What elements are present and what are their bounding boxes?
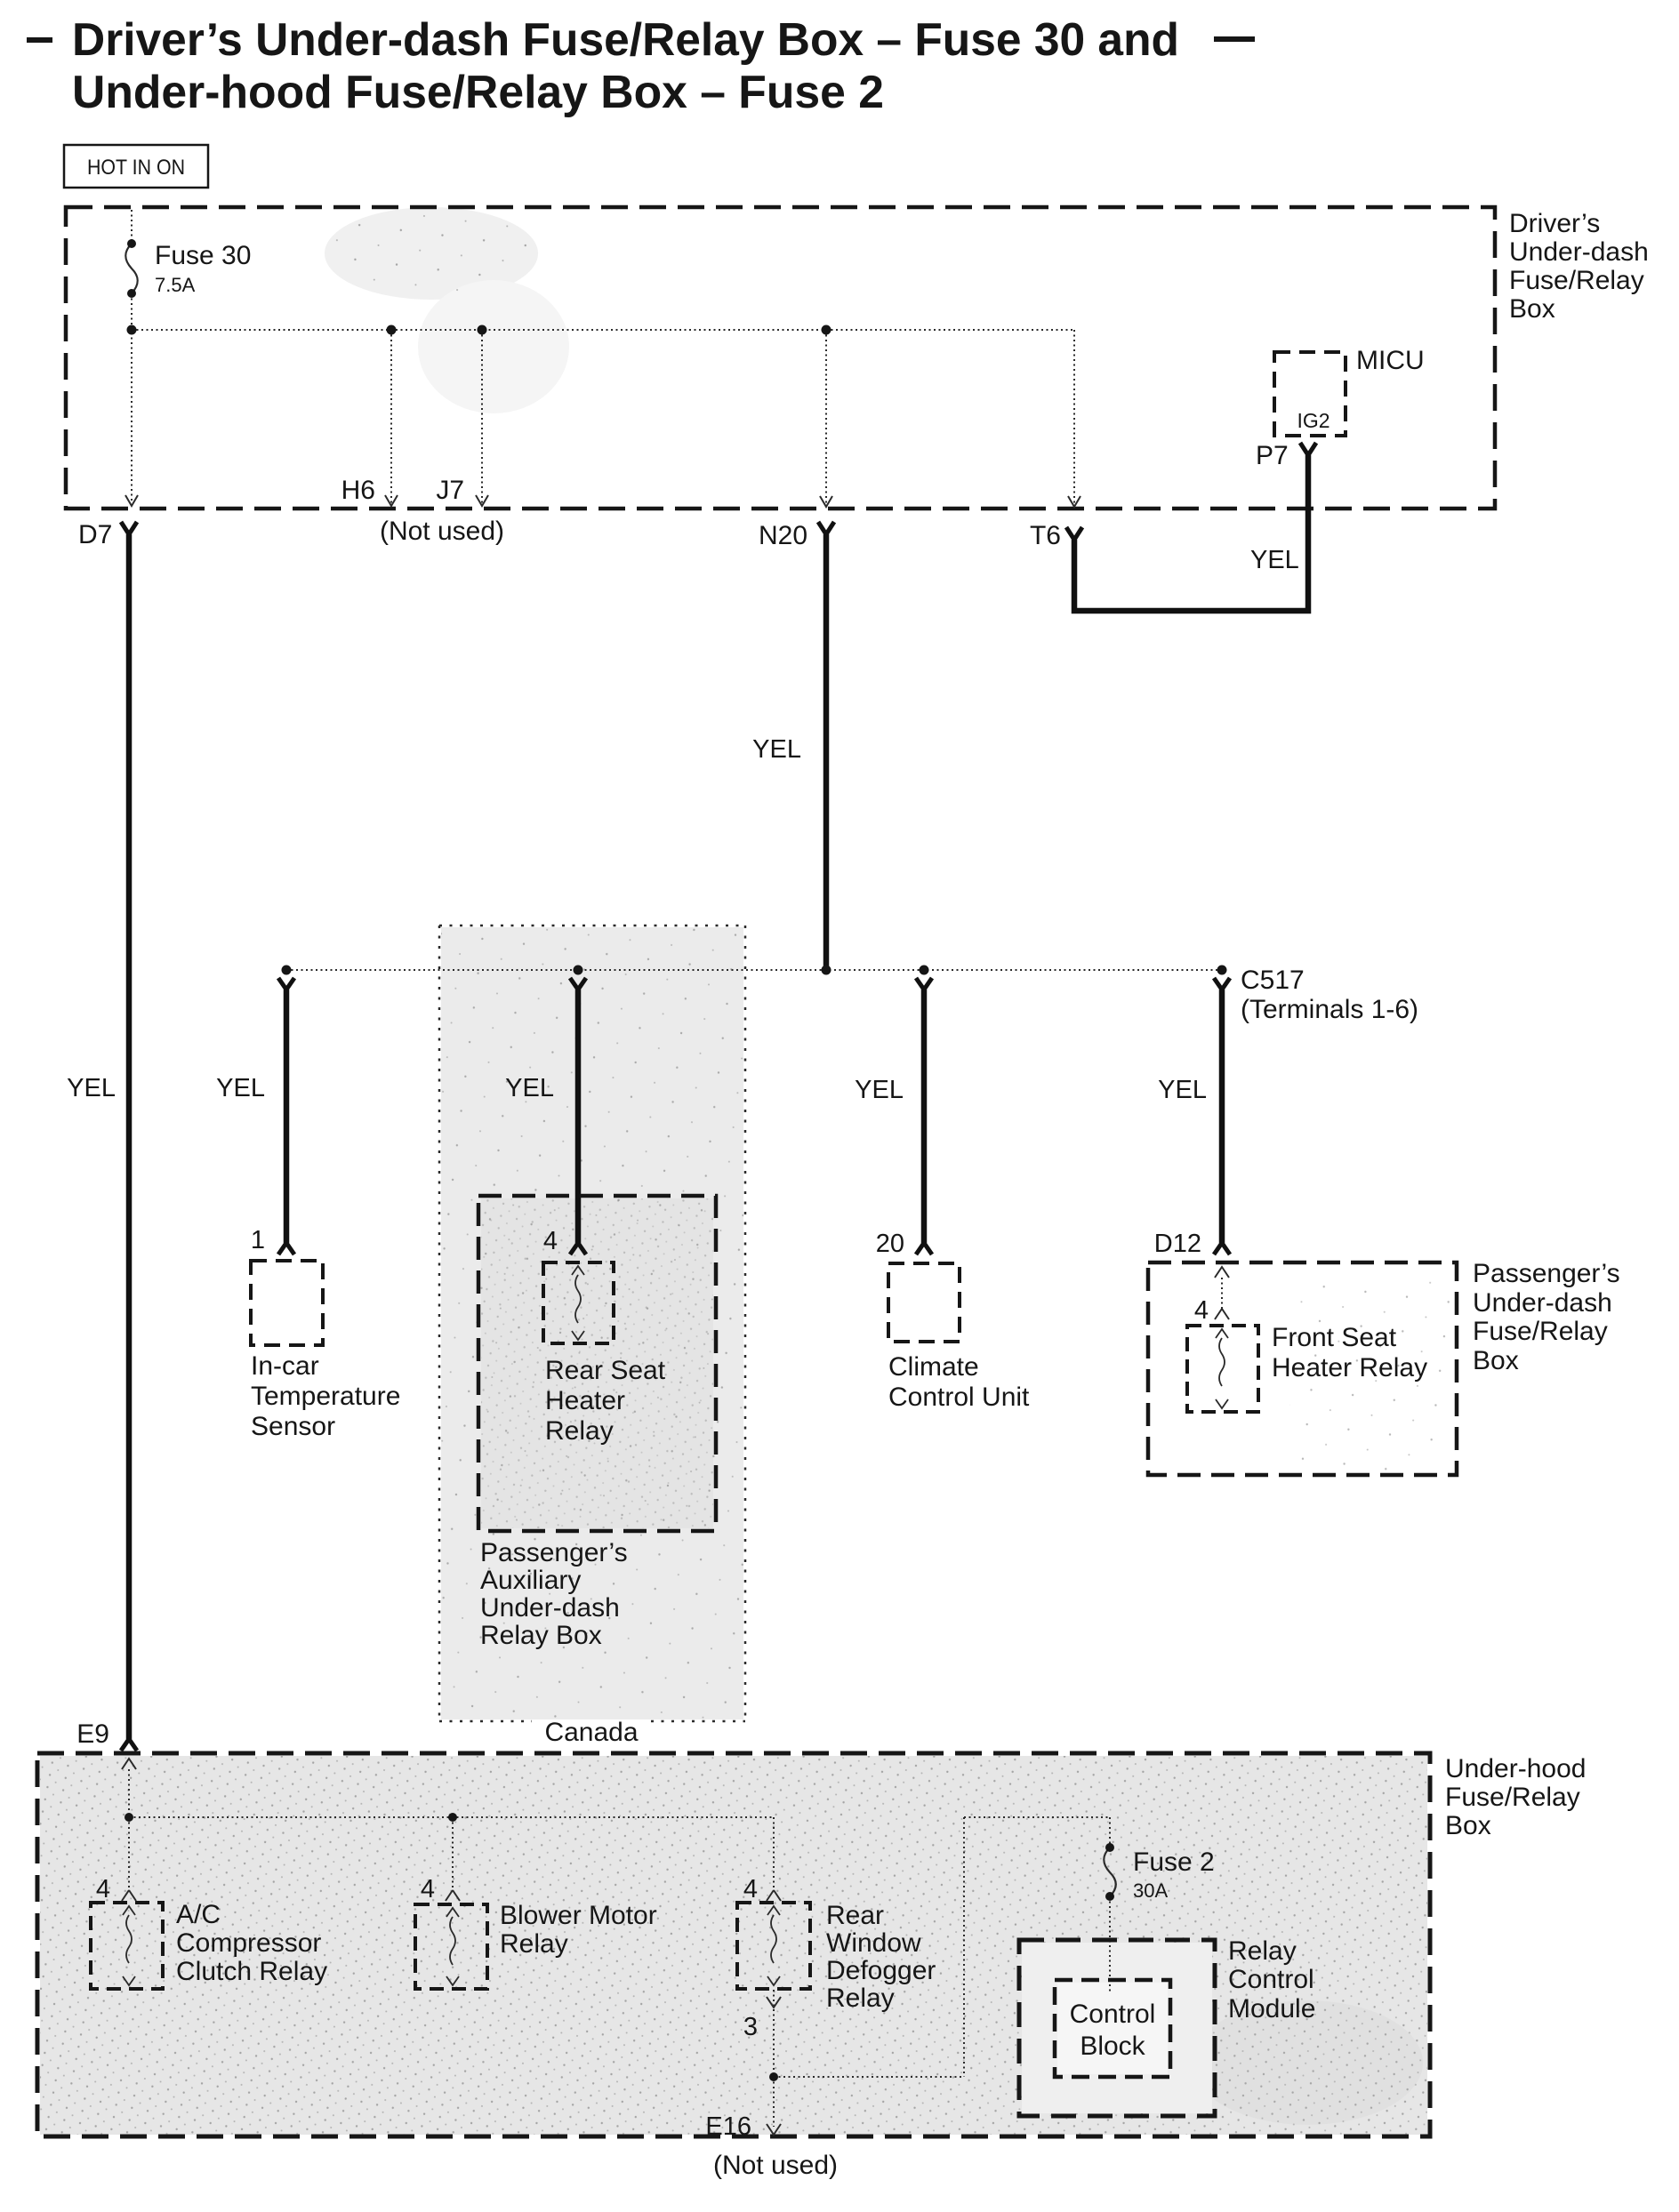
svg-text:Box: Box: [1509, 294, 1555, 324]
svg-text:N20: N20: [759, 521, 807, 550]
svg-text:Module: Module: [1228, 1994, 1315, 2024]
svg-text:(Terminals 1-6): (Terminals 1-6): [1241, 995, 1418, 1024]
svg-text:(Not used): (Not used): [713, 2151, 838, 2180]
svg-text:4: 4: [421, 1875, 435, 1903]
svg-text:IG2: IG2: [1297, 409, 1330, 432]
svg-text:Under-dash: Under-dash: [480, 1593, 620, 1623]
svg-text:P7: P7: [1256, 441, 1289, 470]
svg-text:4: 4: [543, 1227, 558, 1255]
svg-text:MICU: MICU: [1356, 346, 1425, 375]
svg-text:J7: J7: [436, 476, 464, 505]
svg-text:Fuse/Relay: Fuse/Relay: [1509, 266, 1644, 295]
svg-text:YEL: YEL: [855, 1076, 904, 1104]
svg-text:Fuse 30: Fuse 30: [155, 241, 251, 270]
svg-text:Under-hood Fuse/Relay Box – Fu: Under-hood Fuse/Relay Box – Fuse 2: [72, 67, 884, 118]
svg-text:Control: Control: [1228, 1965, 1314, 1994]
svg-text:7.5A: 7.5A: [155, 274, 196, 296]
svg-text:20: 20: [876, 1230, 904, 1258]
svg-text:Rear Seat: Rear Seat: [545, 1356, 666, 1385]
svg-text:H6: H6: [341, 476, 375, 505]
svg-text:Box: Box: [1473, 1346, 1519, 1375]
svg-text:Blower Motor: Blower Motor: [500, 1901, 657, 1930]
svg-text:4: 4: [1194, 1296, 1209, 1325]
svg-text:Relay: Relay: [545, 1416, 614, 1446]
svg-text:Relay Box: Relay Box: [480, 1621, 602, 1650]
svg-text:Fuse/Relay: Fuse/Relay: [1445, 1783, 1580, 1812]
svg-text:Driver’s: Driver’s: [1509, 209, 1600, 238]
svg-text:Heater: Heater: [545, 1386, 625, 1415]
svg-text:YEL: YEL: [67, 1074, 116, 1102]
svg-text:YEL: YEL: [216, 1074, 265, 1102]
svg-text:Under-dash: Under-dash: [1509, 237, 1649, 267]
svg-text:1: 1: [251, 1226, 265, 1254]
svg-text:Temperature: Temperature: [251, 1382, 400, 1411]
svg-text:YEL: YEL: [505, 1074, 554, 1102]
svg-text:Front Seat: Front Seat: [1272, 1323, 1397, 1352]
svg-text:Passenger’s: Passenger’s: [1473, 1259, 1620, 1288]
svg-text:Box: Box: [1445, 1811, 1491, 1840]
svg-text:Climate: Climate: [888, 1352, 979, 1382]
svg-text:Control: Control: [1070, 2000, 1156, 2029]
svg-text:Under-hood: Under-hood: [1445, 1754, 1586, 1783]
svg-text:Block: Block: [1080, 2032, 1145, 2061]
svg-text:T6: T6: [1030, 521, 1061, 550]
svg-text:YEL: YEL: [1250, 546, 1299, 574]
svg-text:Fuse 2: Fuse 2: [1133, 1847, 1215, 1877]
svg-text:4: 4: [743, 1875, 758, 1903]
svg-text:A/C: A/C: [176, 1900, 221, 1929]
svg-text:4: 4: [96, 1875, 110, 1903]
svg-text:Heater Relay: Heater Relay: [1272, 1353, 1427, 1382]
svg-text:YEL: YEL: [1158, 1076, 1207, 1104]
svg-text:Passenger’s: Passenger’s: [480, 1538, 628, 1567]
svg-text:Control Unit: Control Unit: [888, 1382, 1030, 1412]
svg-text:Defogger: Defogger: [826, 1956, 936, 1985]
svg-text:YEL: YEL: [752, 735, 801, 764]
svg-text:(Not used): (Not used): [380, 517, 504, 546]
svg-text:30A: 30A: [1133, 1879, 1168, 1902]
svg-text:E16: E16: [705, 2112, 751, 2141]
svg-text:D7: D7: [78, 520, 112, 549]
svg-text:Relay: Relay: [826, 1984, 895, 2013]
svg-text:C517: C517: [1241, 966, 1305, 995]
svg-text:In-car: In-car: [251, 1351, 319, 1381]
svg-text:Fuse/Relay: Fuse/Relay: [1473, 1317, 1608, 1346]
svg-text:Rear: Rear: [826, 1901, 884, 1930]
svg-text:Canada: Canada: [544, 1718, 638, 1747]
svg-text:Clutch Relay: Clutch Relay: [176, 1957, 327, 1986]
svg-text:Driver’s Under-dash Fuse/Relay: Driver’s Under-dash Fuse/Relay Box – Fus…: [72, 14, 1179, 66]
svg-text:Relay: Relay: [1228, 1936, 1297, 1966]
svg-text:Sensor: Sensor: [251, 1412, 335, 1441]
svg-text:Compressor: Compressor: [176, 1928, 321, 1958]
svg-text:Relay: Relay: [500, 1929, 568, 1959]
svg-text:3: 3: [743, 2013, 758, 2041]
svg-text:HOT IN ON: HOT IN ON: [87, 156, 185, 180]
svg-text:Window: Window: [826, 1928, 921, 1958]
svg-text:D12: D12: [1154, 1230, 1201, 1258]
svg-text:Auxiliary: Auxiliary: [480, 1566, 581, 1595]
svg-text:E9: E9: [76, 1719, 109, 1749]
svg-text:Under-dash: Under-dash: [1473, 1288, 1612, 1318]
